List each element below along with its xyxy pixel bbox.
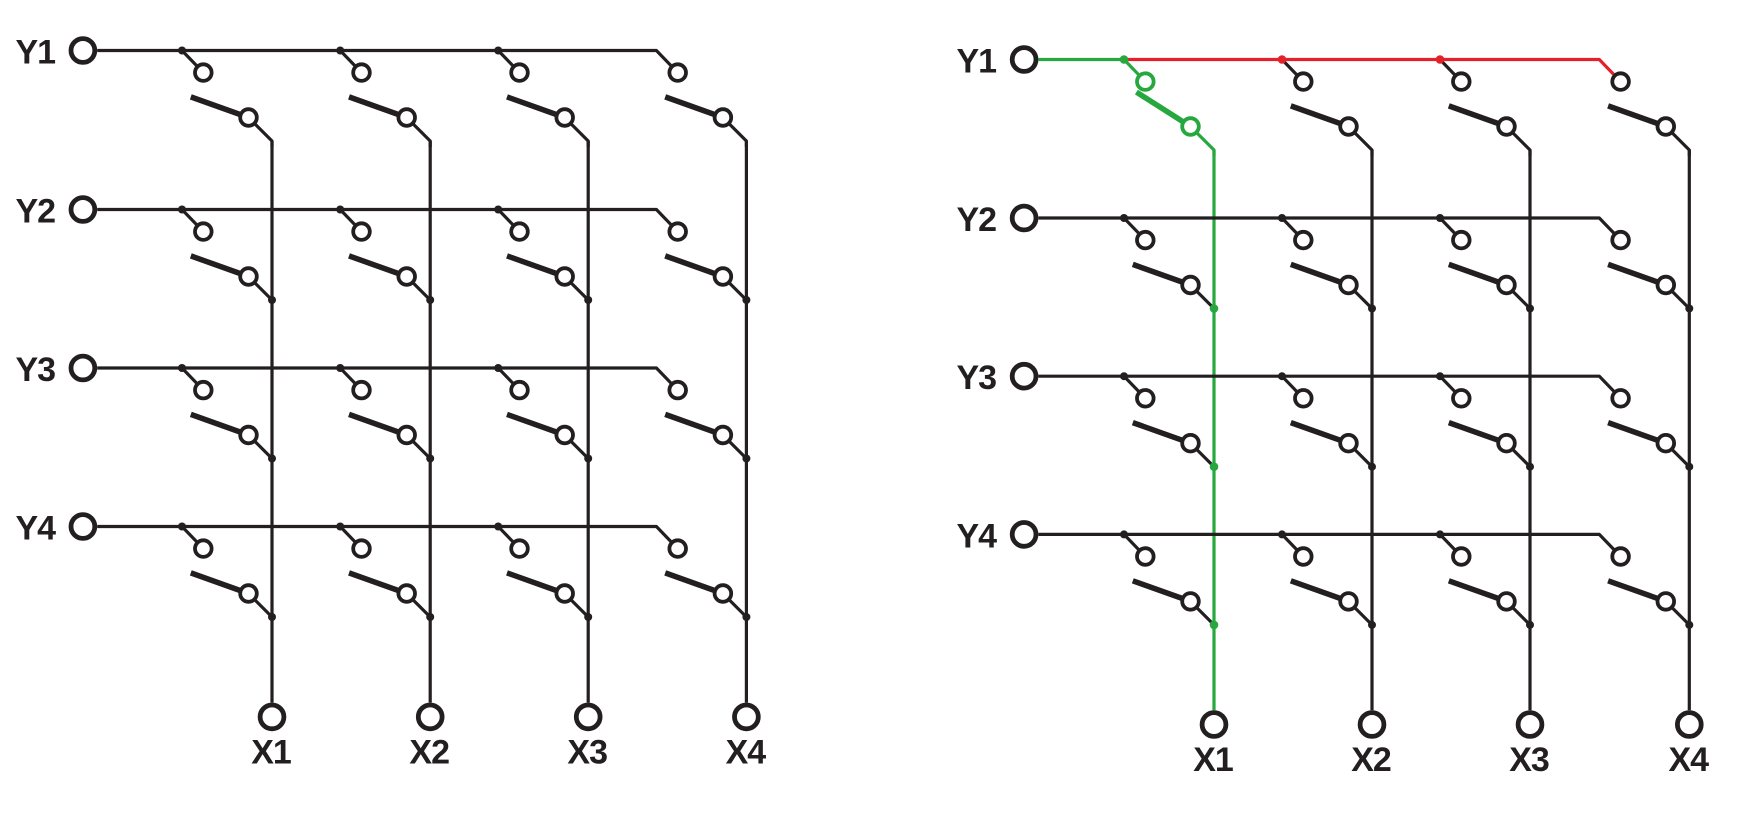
terminal X1 (right): [1202, 713, 1226, 737]
wire: left row Y1 horizontal with bend into S14 contact: [97, 51, 678, 73]
wire: right row Y1 remainder with bend into S14 contact (red): [1124, 60, 1621, 82]
terminal X2 (right): [1360, 713, 1384, 737]
wire: left column X3 vertical: [587, 141, 590, 703]
switch S11 (crosspoint Y1-X1, open): [178, 47, 272, 148]
svg-text:Y4: Y4: [957, 517, 998, 555]
terminal Y2 (left): [71, 198, 95, 222]
svg-text:X4: X4: [726, 733, 767, 771]
switch S13 (crosspoint Y1-X3, open): [1436, 55, 1530, 156]
wire: left column X4 vertical: [745, 141, 748, 703]
svg-text:X2: X2: [409, 733, 449, 771]
wire: right column X2 vertical: [1370, 150, 1373, 710]
switch S23 (crosspoint Y2-X3, open): [1436, 214, 1534, 313]
switch S14 (crosspoint Y1-X4, open): [1608, 73, 1689, 156]
switch S22 (crosspoint Y2-X2, open): [1278, 214, 1376, 313]
switch S11 (crosspoint Y1-X1, closed): [1120, 55, 1214, 156]
svg-text:Y4: Y4: [16, 510, 57, 548]
switch S23 (crosspoint Y2-X3, open): [494, 206, 592, 305]
svg-text:Y1: Y1: [16, 34, 56, 72]
wire: right row Y2 horizontal with bend into S24 contact: [1038, 218, 1620, 240]
svg-text:Y1: Y1: [957, 43, 997, 81]
switch S32 (crosspoint Y3-X2, open): [1278, 372, 1376, 471]
switch S41 (crosspoint Y4-X1, open): [178, 523, 276, 622]
svg-text:X1: X1: [251, 733, 291, 771]
terminal X4 (right): [1677, 713, 1701, 737]
switch S44 (crosspoint Y4-X4, open): [1608, 548, 1693, 629]
terminal X3 (right): [1518, 713, 1542, 737]
switch S34 (crosspoint Y3-X4, open): [665, 382, 750, 463]
switch S44 (crosspoint Y4-X4, open): [665, 540, 750, 621]
switch S42 (crosspoint Y4-X2, open): [1278, 530, 1376, 629]
terminal X4 (left): [735, 705, 759, 729]
terminal Y3 (left): [71, 356, 95, 380]
switch S22 (crosspoint Y2-X2, open): [336, 206, 434, 305]
switch S14 (crosspoint Y1-X4, open): [665, 64, 746, 147]
switch S24 (crosspoint Y2-X4, open): [1608, 232, 1693, 313]
switch S12 (crosspoint Y1-X2, open): [336, 47, 430, 148]
switch S21 (crosspoint Y2-X1, open): [178, 206, 276, 305]
svg-text:Y2: Y2: [16, 193, 56, 231]
terminal Y4 (right): [1012, 523, 1036, 547]
switch S33 (crosspoint Y3-X3, open): [494, 364, 592, 463]
terminal X1 (left): [260, 705, 284, 729]
svg-text:X1: X1: [1193, 741, 1233, 779]
switch S42 (crosspoint Y4-X2, open): [336, 523, 434, 622]
wire: right column X1 vertical: [1212, 150, 1215, 710]
switch S12 (crosspoint Y1-X2, open): [1278, 55, 1372, 156]
wire: left row Y3 horizontal with bend into S34 contact: [97, 368, 678, 390]
svg-text:X3: X3: [1509, 741, 1549, 779]
wire: right column X4 vertical: [1688, 150, 1691, 710]
switch S34 (crosspoint Y3-X4, open): [1608, 390, 1693, 471]
terminal Y4 (left): [71, 515, 95, 539]
switch S13 (crosspoint Y1-X3, open): [494, 47, 588, 148]
terminal Y2 (right): [1012, 206, 1036, 230]
svg-text:Y3: Y3: [16, 351, 56, 389]
wire: left row Y4 horizontal with bend into S44 contact: [97, 527, 678, 549]
svg-text:X3: X3: [567, 733, 607, 771]
terminal X3 (left): [576, 705, 600, 729]
terminal X2 (left): [418, 705, 442, 729]
svg-text:Y2: Y2: [957, 201, 997, 239]
wire: left column X1 vertical: [270, 141, 273, 703]
switch S43 (crosspoint Y4-X3, open): [1436, 530, 1534, 629]
wire: left row Y2 horizontal with bend into S24 contact: [97, 210, 678, 232]
switch S41 (crosspoint Y4-X1, open): [1120, 530, 1218, 629]
switch S24 (crosspoint Y2-X4, open): [665, 223, 750, 304]
svg-text:X4: X4: [1669, 741, 1710, 779]
terminal Y1 (left): [71, 39, 95, 63]
terminal Y3 (right): [1012, 364, 1036, 388]
wire: right column X3 vertical: [1528, 150, 1531, 710]
svg-text:X2: X2: [1351, 741, 1391, 779]
svg-text:Y3: Y3: [957, 359, 997, 397]
switch S31 (crosspoint Y3-X1, open): [1120, 372, 1218, 471]
switch S21 (crosspoint Y2-X1, open): [1120, 214, 1218, 313]
switch S32 (crosspoint Y3-X2, open): [336, 364, 434, 463]
wire: right row Y1 segment terminal-to-S11 junction (green, energized): [1038, 58, 1124, 61]
terminal Y1 (right): [1012, 48, 1036, 72]
switch S43 (crosspoint Y4-X3, open): [494, 523, 592, 622]
wire: right row Y3 horizontal with bend into S34 contact: [1038, 376, 1620, 398]
switch S31 (crosspoint Y3-X1, open): [178, 364, 276, 463]
wire: left column X2 vertical: [429, 141, 432, 703]
switch S33 (crosspoint Y3-X3, open): [1436, 372, 1534, 471]
wire: right row Y4 horizontal with bend into S44 contact: [1038, 534, 1620, 556]
